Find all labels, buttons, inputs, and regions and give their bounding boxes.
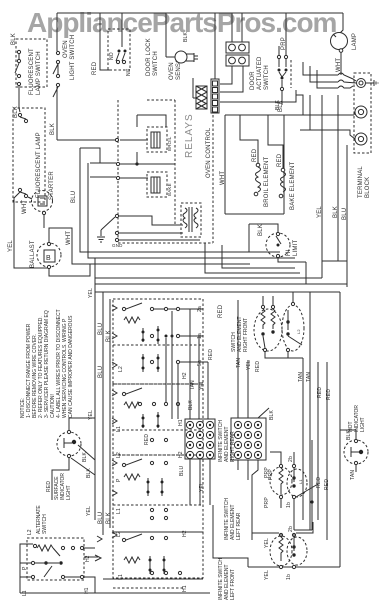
svg-text:NC: NC (126, 68, 132, 76)
svg-text:RED: RED (326, 389, 332, 400)
switch left rear (286, 456, 318, 508)
svg-text:SWITCH: SWITCH (264, 65, 270, 90)
wire lamp drop (340, 13, 343, 33)
wire left YEL (8, 192, 48, 268)
bus tap chevrons (97, 305, 117, 542)
label BLU (left bus) (71, 191, 77, 203)
wire hi limit out (278, 258, 347, 284)
svg-text:BAKE: BAKE (167, 183, 172, 196)
svg-text:TAN: TAN (236, 358, 242, 368)
label RED (bake) (277, 153, 283, 167)
bake element (268, 115, 286, 198)
switch left front (286, 526, 307, 580)
infinite switch right front (unit B) (113, 384, 203, 455)
label YEL (left frame) (86, 288, 94, 516)
svg-text:TAN: TAN (298, 372, 304, 382)
wires left rear pair (270, 452, 294, 530)
wire bottom frame right (294, 440, 314, 530)
svg-text:LAMP SWITCH: LAMP SWITCH (36, 51, 42, 95)
infinite switch right rear (unit A) (113, 299, 203, 384)
svg-text:WHT: WHT (22, 200, 28, 214)
label RED (right rear feed) (218, 304, 224, 318)
svg-text:BLK: BLK (106, 512, 112, 524)
svg-text:RED: RED (144, 434, 150, 445)
bus wires center (90, 252, 347, 284)
svg-text:BLK: BLK (269, 409, 275, 420)
svg-text:BLK: BLK (333, 206, 339, 218)
svg-text:L1: L1 (22, 590, 28, 596)
label BLK (fluorescent lamp) (13, 106, 19, 118)
svg-text:GND: GND (112, 243, 123, 248)
svg-text:HI: HI (286, 249, 292, 256)
hi limit thermostat (266, 232, 290, 257)
wire blu bus (72, 148, 97, 264)
svg-text:OVEN CONTROL: OVEN CONTROL (206, 127, 212, 178)
svg-text:YEL: YEL (264, 570, 270, 580)
svg-text:FLUORESCENT: FLUORESCENT (29, 48, 35, 95)
label BLK (fluorescent switch) (11, 33, 17, 45)
svg-text:L1: L1 (298, 479, 303, 484)
connector block P1 (226, 42, 249, 53)
wires left front pair (252, 522, 313, 536)
svg-text:BLU: BLU (342, 208, 348, 220)
door lock switch (108, 13, 132, 76)
surface section frame (20, 292, 340, 593)
wire right column RED pair (316, 362, 332, 540)
labels alternate switch pins (22, 529, 91, 596)
labels TAN TAN below right front (236, 358, 312, 382)
label OVEN CONTROL (206, 127, 212, 178)
surface indicator light (57, 430, 81, 457)
ground symbol (top right) (366, 80, 378, 86)
label RELAYS (184, 113, 195, 158)
svg-text:RED: RED (317, 387, 323, 398)
svg-text:RED: RED (255, 361, 261, 372)
svg-text:RED: RED (252, 148, 258, 162)
label HOT INDICATOR LIGHT (348, 405, 366, 432)
svg-text:P: P (116, 478, 122, 482)
svg-text:BROIL: BROIL (167, 136, 172, 151)
label DOOR LOCK SWITCH (146, 38, 159, 76)
ground terminal (in terminal block) (357, 79, 366, 88)
svg-text:BLU: BLU (179, 465, 185, 476)
relays box (137, 100, 175, 225)
labels TAN YEL unit A (190, 380, 205, 390)
svg-text:OVEN: OVEN (63, 40, 69, 58)
svg-text:B: B (46, 255, 51, 262)
transformer (181, 203, 201, 237)
element left rear (264, 464, 292, 508)
svg-text:RIGHT FRONT: RIGHT FRONT (243, 318, 249, 352)
svg-text:DOOR: DOOR (250, 71, 256, 90)
label RED surface light (46, 481, 52, 492)
wire door lock feed (100, 13, 110, 70)
svg-text:BLU: BLU (71, 191, 77, 203)
wires unit A terminal drops (166, 311, 178, 419)
svg-text:2b: 2b (288, 456, 294, 462)
infinite switch left front (unit D) (103, 530, 203, 592)
label DOOR ACTUATED SWITCH (250, 56, 270, 90)
svg-text:LIGHT SWITCH: LIGHT SWITCH (70, 35, 76, 80)
relay aux terminal (115, 214, 183, 225)
svg-text:BLU: BLU (98, 366, 104, 378)
svg-text:TAN: TAN (306, 372, 312, 382)
svg-text:TERMINAL: TERMINAL (358, 166, 364, 198)
svg-text:BLK: BLK (106, 330, 112, 342)
svg-text:BROIL ELEMENT: BROIL ELEMENT (264, 156, 270, 207)
wire right bus YEL (317, 95, 323, 261)
svg-text:YEL: YEL (317, 206, 323, 218)
svg-text:BLK: BLK (346, 429, 352, 440)
label BLU (terminal block left) (179, 465, 205, 492)
label TERMINAL BLOCK (358, 166, 371, 198)
door actuated switch contacts (277, 13, 291, 105)
wire main drop to relays (57, 138, 119, 141)
label infinite switch left rear (224, 498, 242, 540)
label LAMP (352, 33, 358, 50)
svg-text:RED: RED (277, 153, 283, 167)
svg-text:L1: L1 (116, 426, 122, 432)
wire top bus (57, 12, 343, 14)
svg-text:ACTUATED: ACTUATED (257, 56, 263, 90)
fluorescent lamp switch (15, 39, 47, 87)
svg-text:SWITCH: SWITCH (153, 51, 159, 76)
label WHT (lamp) (336, 58, 342, 72)
svg-text:BLK: BLK (86, 467, 92, 478)
wires through terminal blocks (190, 300, 269, 540)
svg-text:BAKE ELEMENT: BAKE ELEMENT (290, 161, 296, 210)
label STARTER (49, 171, 55, 200)
label ALTERNATE SWITCH (36, 505, 48, 534)
svg-text:LIGHT: LIGHT (66, 485, 72, 500)
display ribbon (193, 78, 207, 109)
alternate switch (27, 538, 84, 580)
labels unit A terminals (118, 306, 203, 379)
wire ballast bottom (49, 264, 90, 276)
svg-text:H1: H1 (84, 587, 90, 594)
label HI LIMIT (286, 240, 299, 256)
label SURFACE INDICATOR LIGHT (54, 473, 72, 500)
wires control drops to bus (205, 243, 300, 273)
terminal block (354, 73, 371, 153)
svg-text:AppliancePartsPros.com: AppliancePartsPros.com (27, 7, 337, 38)
label BALLAST (30, 240, 36, 268)
svg-text:BLK: BLK (183, 31, 189, 42)
svg-text:STARTER: STARTER (49, 171, 55, 200)
notice text block (20, 309, 74, 418)
svg-text:YEL: YEL (246, 360, 252, 370)
wire L1 feed to terminal (300, 112, 355, 139)
svg-text:SWITCH: SWITCH (42, 514, 48, 534)
label OVEN SENSOR (169, 53, 182, 80)
svg-text:YEL: YEL (88, 288, 94, 298)
svg-text:PRP: PRP (264, 467, 270, 478)
svg-text:PRP: PRP (264, 497, 270, 508)
label FLUORESCENT LAMP (36, 132, 42, 198)
svg-text:BLK: BLK (258, 224, 264, 236)
label infinite switch left front (218, 558, 236, 600)
svg-text:RED: RED (316, 477, 322, 488)
wire relay feeds (116, 140, 175, 180)
oven lamp (331, 33, 348, 53)
svg-text:BLK: BLK (82, 451, 88, 462)
svg-text:RED: RED (92, 61, 98, 75)
svg-text:BLK: BLK (188, 399, 194, 410)
svg-text:FLUORESCENT LAMP: FLUORESCENT LAMP (36, 132, 42, 198)
svg-text:TAN: TAN (190, 380, 196, 390)
svg-text:BLU: BLU (98, 512, 104, 524)
svg-text:BALLAST: BALLAST (30, 240, 36, 268)
label switch and element right front (231, 316, 249, 352)
svg-text:LIMIT: LIMIT (293, 240, 299, 256)
svg-text:DOOR LOCK: DOOR LOCK (146, 38, 152, 76)
fluorescent lamp (13, 108, 45, 202)
wire right bus BLK (333, 95, 339, 261)
svg-text:YEL: YEL (264, 538, 270, 548)
svg-text:BLU: BLU (98, 323, 104, 335)
svg-text:1b: 1b (286, 502, 292, 508)
element left front (264, 533, 292, 580)
svg-text:LEFT REAR: LEFT REAR (236, 512, 242, 540)
svg-text:L1: L1 (118, 574, 124, 580)
element right front (254, 296, 282, 352)
svg-text:YEL: YEL (8, 240, 14, 252)
label FLUORESCENT LAMP SWITCH (29, 48, 42, 95)
oven sensor (166, 13, 198, 63)
svg-text:H1: H1 (182, 585, 188, 592)
relay BAKE (151, 177, 172, 196)
label BAKE ELEMENT (290, 161, 296, 210)
left bus BLU/BLK verticals (98, 292, 122, 537)
wire oven light switch drop (57, 13, 58, 140)
control board connector (211, 13, 219, 113)
wire connector drops (220, 13, 296, 102)
svg-text:2b: 2b (288, 526, 294, 532)
svg-text:H2: H2 (182, 372, 188, 379)
wires unit A to terminal blocks (154, 309, 208, 419)
terminal block left (185, 419, 215, 459)
svg-text:NO: NO (109, 52, 115, 60)
wire hi limit feed (249, 224, 278, 252)
wire fluorescent top link (19, 86, 32, 199)
svg-text:PRP: PRP (281, 37, 287, 50)
svg-text:BLK: BLK (278, 100, 284, 112)
svg-text:RED: RED (324, 479, 330, 490)
labels BLK TAN hot light (346, 429, 356, 480)
label WHT (ballast bus) (66, 231, 72, 245)
svg-text:H1: H1 (178, 419, 184, 426)
connector block P2 (226, 55, 249, 66)
labels unit B (116, 399, 194, 458)
label BLK/PRP near TB right (268, 409, 275, 480)
label WHT (starter) (22, 200, 28, 214)
wire right bus bends (322, 261, 347, 287)
oven light switch contacts (53, 51, 60, 97)
svg-text:L2: L2 (118, 366, 124, 372)
relay BROIL (151, 132, 172, 151)
starter (32, 191, 53, 229)
wire bus left bends (90, 258, 95, 292)
label BLK (oven feed) (278, 100, 284, 112)
svg-text:LEFT FRONT: LEFT FRONT (230, 569, 236, 600)
wires hot indicator (340, 430, 356, 472)
oven control board outline (118, 100, 213, 243)
wires top-right bundle (296, 62, 356, 130)
svg-text:L2: L2 (296, 329, 301, 334)
label RED (door lock feed) (92, 61, 98, 75)
svg-text:YEL: YEL (86, 506, 92, 516)
svg-text:5a: 5a (197, 360, 203, 366)
svg-text:CAN CAUSE IMPROPER AND DANGERO: CAN CAUSE IMPROPER AND DANGEROUS (68, 315, 74, 418)
svg-text:RED: RED (218, 304, 224, 318)
label PRP (door actuated) (281, 37, 287, 50)
watermark AppliancePartsPros.com (27, 7, 337, 38)
svg-text:BLK: BLK (50, 123, 56, 135)
wires surface light (52, 418, 95, 500)
broil element (240, 115, 261, 196)
wire lamp down (340, 52, 342, 75)
svg-text:RED: RED (46, 481, 52, 492)
wire left edge taps (80, 148, 116, 177)
label RED (unit A side) (208, 349, 214, 360)
GND terminal (97, 217, 200, 248)
wires alternate switch (20, 544, 101, 593)
label BLK (hi limit) (258, 224, 264, 236)
svg-text:1b: 1b (286, 574, 292, 580)
svg-text:H2: H2 (85, 555, 91, 562)
label OVEN LIGHT SWITCH (63, 35, 76, 80)
terminal block right (231, 418, 266, 460)
svg-text:RELAYS: RELAYS (184, 113, 195, 158)
infinite switch left rear (unit C) (113, 455, 203, 532)
ballast (37, 228, 72, 269)
svg-text:WHT: WHT (66, 231, 72, 245)
svg-text:RED: RED (208, 349, 214, 360)
label RED (broil) (252, 148, 258, 162)
svg-text:LIGHT: LIGHT (360, 417, 366, 432)
svg-text:TAN: TAN (350, 470, 356, 480)
svg-text:H2: H2 (182, 530, 188, 537)
svg-text:L2: L2 (27, 529, 33, 535)
label WHT (oven control) (220, 171, 226, 185)
svg-text:BLK: BLK (11, 33, 17, 45)
svg-text:OVEN: OVEN (169, 62, 175, 80)
label BROIL ELEMENT (264, 156, 270, 207)
svg-text:L1: L1 (116, 508, 122, 514)
switch right front (282, 292, 304, 358)
label infinite switch right rear (218, 420, 236, 462)
label BLK (door actuated out) (275, 99, 281, 110)
svg-text:YEL: YEL (199, 380, 205, 390)
svg-text:YEL: YEL (88, 410, 94, 420)
oven cavity box (225, 115, 354, 214)
wires right front to bus (265, 292, 310, 530)
wire right bus BLU (342, 145, 348, 287)
svg-text:LAMP: LAMP (352, 33, 358, 50)
hot indicator light (344, 439, 368, 464)
label BLK (main drop) (50, 123, 56, 135)
svg-text:BLOCK: BLOCK (365, 177, 371, 198)
